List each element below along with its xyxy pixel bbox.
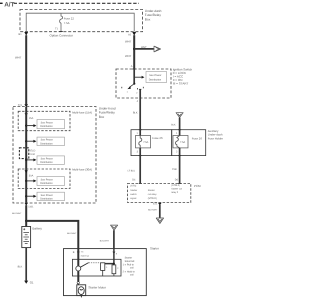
svg-text:See Power: See Power	[149, 74, 161, 77]
under-hood fuse/relay box label	[99, 106, 116, 119]
svg-text:Option Connector: Option Connector	[50, 33, 74, 37]
svg-text:See Power: See Power	[41, 121, 53, 124]
svg-text:Starter cut: Starter cut	[171, 187, 182, 190]
hold-in coil 2	[112, 265, 119, 276]
svg-text:BLK/WHT: BLK/WHT	[148, 209, 158, 212]
svg-text:(STRL2): (STRL2)	[171, 184, 180, 187]
internal bus wire (under-dash box)	[26, 13, 134, 31]
starter motor armature	[78, 287, 84, 295]
svg-text:BLK/WHT: BLK/WHT	[67, 232, 77, 235]
main wire through under-hood box	[25, 107, 27, 203]
PCM pin text STRL2	[171, 184, 182, 194]
svg-text:ELD: ELD	[30, 149, 35, 152]
wire WHT from A2 down	[125, 35, 134, 69]
motor terminal tick	[77, 282, 80, 284]
multi-fuse (15A) dashed box	[18, 111, 70, 130]
solenoid junction node	[113, 263, 115, 265]
exit tick fuse26 aux	[178, 155, 181, 157]
svg-text:coil: coil	[130, 267, 134, 270]
ground stub below starter	[81, 296, 82, 298]
svg-text:Unit: Unit	[30, 153, 35, 156]
svg-text:WHT: WHT	[125, 54, 132, 58]
entry tick fuse26 left	[139, 129, 142, 131]
svg-text:Distribution: Distribution	[40, 142, 53, 145]
svg-text:Distribution: Distribution	[40, 198, 53, 201]
svg-text:(STRLD): (STRLD)	[148, 197, 157, 200]
svg-text:Fuse Holder: Fuse Holder	[208, 136, 223, 140]
svg-text:BLK: BLK	[133, 112, 138, 115]
wire solenoid to motor	[77, 271, 79, 282]
svg-text:7.5A: 7.5A	[143, 141, 148, 144]
svg-text:Fuse 26: Fuse 26	[152, 136, 163, 140]
svg-text:30A: 30A	[29, 174, 34, 177]
junction 1 + branch arrow	[25, 124, 36, 127]
pin B1 + terminal arrow	[19, 32, 29, 36]
title A/T	[0, 1, 139, 8]
switch wiper	[127, 84, 134, 89]
continuation arrow A (in, down) to starter	[111, 225, 118, 230]
see power distribution box 4	[37, 177, 65, 186]
exit tick fuse26 left	[139, 155, 142, 157]
svg-text:PCM: PCM	[194, 184, 201, 188]
junction 2 + branch arrow	[25, 140, 36, 143]
junction 3 + branch arrow	[25, 158, 36, 161]
svg-text:cut relay: cut relay	[148, 193, 158, 196]
svg-text:7.5A: 7.5A	[64, 21, 70, 25]
wire BLK/WHT to starter S	[100, 230, 114, 248]
svg-text:III = START: III = START	[173, 82, 189, 86]
ELD box (bold dashed)	[19, 148, 35, 159]
wire BLK into aux fuse holder	[171, 118, 179, 130]
see power distribution box 3	[37, 156, 65, 164]
svg-text:Distribution: Distribution	[40, 125, 53, 128]
continuation arrow (from other page) into aux fuse	[176, 113, 183, 118]
pin B + terminal	[73, 251, 80, 254]
multi-fuse 15A terminal arrow + value	[25, 113, 34, 120]
wire PNK from aux fuse to PCM	[172, 148, 179, 184]
pin 1101 exit arrow	[25, 203, 35, 209]
svg-text:15A: 15A	[29, 117, 34, 120]
svg-text:See Power: See Power	[41, 194, 53, 197]
svg-text:WHT: WHT	[15, 55, 22, 59]
svg-text:relay 2: relay 2	[171, 191, 179, 194]
svg-text:7.5A: 7.5A	[180, 141, 185, 144]
PCM (dashed box)	[128, 184, 191, 203]
svg-text:See Power: See Power	[41, 139, 53, 142]
under-hood fuse/relay box (dashed outline)	[13, 107, 96, 204]
svg-text:See Power: See Power	[41, 158, 53, 161]
pin T21 + entry arrow into under-hood box	[18, 104, 28, 107]
branch to see power distribution	[134, 76, 144, 79]
junction 5 + branch arrow	[25, 195, 36, 198]
wire battery to starter B	[26, 221, 78, 249]
svg-text:WHT: WHT	[125, 39, 132, 43]
junction battery node	[25, 220, 27, 222]
see power distribution box 1	[37, 120, 65, 129]
solenoid label	[123, 256, 136, 276]
svg-text:See Power: See Power	[41, 178, 53, 181]
wire WHT battery cable	[12, 205, 26, 226]
svg-text:Starter: Starter	[150, 247, 159, 251]
solenoid moving contact	[80, 263, 88, 268]
wire BLK battery negative	[18, 248, 27, 281]
pin E21 exit arrow	[153, 202, 162, 205]
pull-in coil 1	[101, 263, 109, 276]
starter solenoid box	[72, 259, 121, 276]
continuation arrow A (out, down)	[156, 218, 163, 224]
svg-text:Multi-fuse (15A): Multi-fuse (15A)	[72, 110, 92, 114]
starter internal label	[81, 251, 90, 258]
svg-text:Multi-fuse (30A): Multi-fuse (30A)	[72, 167, 92, 171]
under-hood fuse box (fuse 26 section, solid)	[131, 130, 172, 156]
PCM pin text STS	[130, 185, 137, 200]
wire branch WHT to other circuits	[134, 46, 154, 49]
auxiliary under-dash fuse holder box (solid)	[172, 130, 206, 156]
svg-text:BLK: BLK	[18, 266, 23, 269]
see power distribution box 5	[37, 192, 65, 200]
wire from fuse 26 to PCM	[128, 148, 141, 184]
svg-text:(STS): (STS)	[130, 185, 136, 188]
wire B into solenoid	[77, 249, 79, 266]
auxiliary under-dash fuse holder label	[208, 129, 223, 140]
ignition switch (dashed box)	[116, 69, 171, 98]
svg-text:Distribution: Distribution	[40, 182, 53, 185]
svg-text:LT BLU: LT BLU	[128, 169, 136, 172]
svg-text:mach-up: mach-up	[81, 254, 90, 257]
fuse 26 element (left)	[136, 130, 163, 148]
svg-text:G1: G1	[30, 280, 34, 284]
entry tick fuse26 aux	[178, 129, 181, 131]
svg-text:Distribution: Distribution	[40, 161, 53, 164]
under-dash fuse/relay box (dashed outline)	[20, 10, 143, 32]
wire BLK/WHT from PCM E21	[148, 205, 160, 218]
starter motor box	[77, 285, 86, 296]
switch terminals	[122, 87, 144, 95]
svg-text:WHT: WHT	[141, 46, 147, 49]
pin A of ignition switch	[131, 65, 136, 69]
pin A2 + terminal arrow	[128, 32, 136, 36]
svg-text:Box: Box	[145, 17, 151, 21]
ground G1	[24, 280, 34, 284]
wire BLK from ignition to under-hood fuse box	[133, 98, 140, 130]
svg-text:Starter: Starter	[130, 189, 137, 192]
svg-text:switch: switch	[130, 193, 137, 196]
continuation arrow (to other page, right)	[154, 46, 161, 52]
wire WHT from B1 down to under-hood box	[15, 35, 26, 104]
svg-text:Starter Motor: Starter Motor	[88, 285, 106, 289]
svg-text:Box: Box	[99, 115, 105, 119]
switch node	[133, 83, 135, 85]
svg-text:Battery: Battery	[32, 227, 42, 231]
svg-text:Fuse 22: Fuse 22	[64, 17, 75, 21]
fuse 26 element (aux)	[173, 130, 202, 148]
pin T1	[55, 28, 63, 32]
svg-text:coil: coil	[130, 274, 134, 277]
svg-text:Fuse 26: Fuse 26	[192, 136, 203, 140]
svg-text:1101: 1101	[28, 205, 34, 208]
multi-fuse (30A) dashed box	[18, 169, 70, 189]
mechanical link (dashed)	[89, 262, 101, 264]
svg-text:BLK/WHT: BLK/WHT	[12, 212, 22, 215]
svg-text:Distribution: Distribution	[149, 79, 162, 82]
svg-text:signal: signal	[130, 197, 136, 200]
see power distribution box (ignition)	[146, 72, 167, 83]
svg-text:PNK: PNK	[172, 168, 177, 171]
svg-text:A/T: A/T	[4, 1, 14, 8]
under-dash fuse/relay box label	[145, 9, 162, 22]
starter assembly box	[64, 249, 147, 296]
multi-fuse 30A terminal arrow + value	[25, 170, 34, 177]
svg-text:Starter: Starter	[148, 189, 155, 192]
ignition switch legend	[173, 67, 193, 85]
PCM pin text STRLD	[148, 189, 158, 200]
svg-text:Solenoid: Solenoid	[125, 260, 135, 263]
node junction on WHT wire	[133, 48, 135, 50]
see power distribution box 2	[37, 137, 65, 145]
solenoid contact plunger	[76, 266, 81, 271]
entry tick PCM D4	[139, 183, 142, 185]
svg-text:BLK/WHT: BLK/WHT	[100, 239, 110, 242]
wire from ST terminal	[139, 89, 141, 98]
entry tick PCM D6	[178, 183, 181, 185]
wire S into solenoid	[105, 249, 114, 264]
fuse 22	[60, 13, 75, 31]
svg-text:BLK: BLK	[171, 124, 176, 127]
svg-text:E21: E21	[153, 202, 158, 205]
wire inside ignition switch	[133, 69, 135, 84]
pin S + terminal	[113, 252, 118, 256]
battery B1	[22, 227, 43, 248]
junction 4 + branch arrow	[25, 179, 36, 182]
